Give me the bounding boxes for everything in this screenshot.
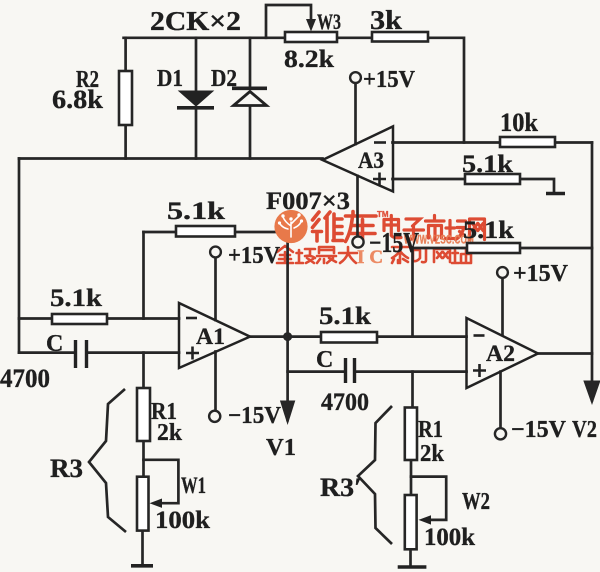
wire between W3 and 3k (337, 36, 372, 39)
svg-text:+15V: +15V (513, 261, 569, 287)
wire A1 feedback top (144, 231, 288, 234)
svg-text:8.2k: 8.2k (284, 46, 334, 73)
watermark bottom slogan (277, 246, 471, 263)
svg-text:+15V: +15V (228, 243, 281, 269)
wire A1 feedback vertical (142, 232, 145, 319)
ground left bottom (131, 564, 153, 568)
wire R2 bottom (124, 125, 127, 159)
svg-text:A1: A1 (196, 324, 225, 349)
svg-text:2CK×2: 2CK×2 (150, 6, 241, 36)
wire left vertical (18, 159, 21, 353)
wire A1 output (250, 335, 467, 338)
svg-text:R3: R3 (50, 454, 83, 483)
op-amp A2 (467, 318, 539, 388)
wire 3k to right corner (428, 38, 464, 143)
terminal +15V A2 (497, 267, 508, 278)
brace R3' (358, 406, 392, 544)
svg-text:W3: W3 (317, 9, 341, 34)
svg-text:W2: W2 (462, 489, 490, 515)
op-amp A3 (323, 126, 394, 191)
wire A2 +15V supply (501, 278, 504, 335)
svg-text:V2: V2 (572, 417, 597, 443)
terminal -15V A1 (209, 411, 220, 422)
svg-text:V1: V1 (266, 435, 296, 461)
wire D2 bottom (249, 106, 252, 159)
resistor 5.1k A1 feedback (176, 226, 235, 237)
svg-text:100k: 100k (155, 507, 210, 534)
resistor 5.1k A2 feedback (467, 243, 520, 253)
wire R2 top (124, 38, 127, 71)
arrow V2 output (583, 381, 600, 406)
wire D1 bottom (195, 109, 198, 159)
svg-text:−15V: −15V (511, 417, 567, 443)
arrow W1 wiper (150, 499, 163, 508)
resistor R1 left (137, 388, 150, 441)
svg-text:W1: W1 (181, 473, 206, 498)
wire A3 inverting input line (393, 141, 593, 144)
svg-text:10k: 10k (500, 108, 538, 137)
wire W2 bottom to ground (409, 549, 412, 566)
terminal -15V A2 (495, 428, 506, 439)
potentiometer W1 (137, 477, 149, 531)
diode D1 (177, 91, 214, 108)
wire A1 output junction vertical / V1 drop (286, 232, 289, 420)
wire D1 top (195, 38, 198, 91)
svg-text:TM: TM (377, 210, 389, 219)
potentiometer W2 (405, 495, 417, 549)
svg-text:6.8k: 6.8k (52, 85, 104, 114)
arrow W2 wiper (419, 515, 432, 524)
wire W2 wiper loop (411, 477, 446, 520)
svg-text:D2: D2 (211, 66, 237, 92)
wire R1 left to W1 (142, 441, 145, 477)
resistor 5.1k A1 to A2 (321, 332, 377, 343)
svg-text:C: C (46, 331, 63, 357)
svg-text:3k: 3k (370, 5, 402, 35)
wire A2 plus input to R1 vertical (411, 372, 414, 408)
svg-text:100k: 100k (424, 524, 475, 551)
wire A3 -15V supply (356, 176, 359, 237)
svg-text:5.1k: 5.1k (463, 217, 514, 244)
wire far right vertical (591, 143, 594, 401)
resistor R2 (119, 71, 132, 125)
svg-text:5.1k: 5.1k (462, 151, 513, 178)
capacitor C (A1 input) (76, 340, 87, 368)
wire A2 output (538, 352, 592, 355)
resistor 10k (500, 137, 555, 147)
wire A2 -15V supply (499, 372, 502, 428)
resistor R1 right (405, 408, 417, 461)
wire D2 top (249, 38, 252, 87)
svg-text:A2: A2 (486, 341, 515, 366)
svg-text:C: C (316, 347, 333, 373)
brace R3 (89, 389, 126, 532)
svg-text:5.1k: 5.1k (319, 303, 371, 330)
resistor 5.1k A1 input (52, 314, 107, 324)
svg-text:5.1k: 5.1k (50, 285, 102, 312)
wire top bus left segment (124, 36, 285, 39)
wire W1 bottom to ground (141, 531, 144, 565)
svg-text:R1: R1 (418, 417, 443, 443)
diode D2 (232, 88, 267, 105)
wire A3 output bus (19, 157, 323, 160)
svg-text:2k: 2k (420, 441, 445, 467)
svg-text:D1: D1 (157, 66, 183, 92)
watermark text weiku (313, 212, 377, 243)
svg-text:5.1k: 5.1k (167, 198, 225, 225)
wire R1 right to W2 (410, 460, 413, 495)
wire W3 wiper loop (266, 5, 311, 38)
resistor 5.1k A3 plus input (465, 174, 520, 184)
svg-text:2k: 2k (157, 420, 183, 446)
wire A1 inverting input line (19, 317, 179, 320)
svg-text:A3: A3 (358, 148, 384, 173)
resistor 3k (372, 32, 428, 42)
wire R1 left top (142, 353, 145, 388)
ground A3 plus input (546, 192, 565, 196)
wire W1 wiper loop (144, 460, 179, 503)
potentiometer W3 (285, 32, 337, 42)
svg-text:F007×3: F007×3 (266, 188, 350, 215)
svg-text:4700: 4700 (321, 389, 369, 416)
terminal -15V A3 (352, 236, 363, 247)
capacitor C (A2 input) (346, 358, 355, 383)
wire A3 noninverting input line (393, 179, 555, 191)
wire A1 noninverting input line (19, 351, 179, 354)
terminal +15V A1 (210, 247, 221, 258)
wire A1 -15V supply (214, 352, 217, 411)
wire A2 noninverting input line (288, 370, 467, 373)
op-amp A1 (179, 303, 250, 368)
watermark logo circle (274, 210, 307, 243)
svg-text:−15V: −15V (228, 403, 282, 429)
wire A2 feedback vertical (411, 248, 414, 337)
wire A3 +15V supply (354, 83, 357, 144)
wire A2 feedback top line (413, 247, 593, 250)
svg-text:+15V: +15V (363, 67, 416, 93)
arrow V1 output (280, 401, 295, 426)
svg-text:4700: 4700 (0, 364, 50, 393)
junction dot A1 output (283, 332, 292, 341)
svg-text:−15V: −15V (369, 228, 419, 259)
terminal +15V A3 (350, 72, 361, 83)
watermark text dian zi shi chang wang (384, 216, 485, 241)
svg-text:R3′: R3′ (320, 473, 362, 502)
ground right bottom (398, 565, 427, 569)
arrow into W3 (306, 19, 316, 32)
wire A1 +15V supply (214, 258, 217, 321)
